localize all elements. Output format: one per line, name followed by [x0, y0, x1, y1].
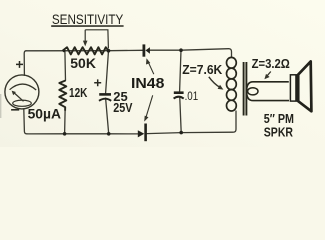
meter scale arc	[10, 84, 37, 90]
junction dot pot right terminal	[107, 49, 111, 53]
diode D2 bottom: triangle pointing right	[138, 130, 145, 137]
wire top rail	[26, 50, 109, 52]
wire bottom rail	[27, 133, 138, 135]
diode D1 top: triangle pointing left	[146, 47, 150, 54]
capacitor C1 top plate	[99, 93, 111, 96]
wire meter bottom to bottom rail	[24, 109, 27, 134]
svg-text:Z=3.2Ω: Z=3.2Ω	[252, 56, 290, 71]
transformer T1 primary coil	[227, 57, 237, 111]
leader arrow from IN48 to bottom diode	[146, 95, 153, 117]
speaker cone	[298, 61, 311, 111]
paper background	[0, 0, 325, 147]
svg-text:12K: 12K	[69, 86, 87, 100]
speaker LS1 driver frame	[290, 75, 298, 101]
capacitor C2 .01 top plate	[174, 91, 184, 94]
svg-text:50µA: 50µA	[28, 106, 62, 121]
wire cap C1 column bottom	[106, 98, 109, 134]
junction dot top rail at .01 branch	[179, 48, 183, 52]
svg-text:IN48: IN48	[131, 76, 164, 92]
wire 12K column top	[64, 51, 67, 81]
junction dot bottom rail .01	[179, 131, 183, 135]
pot wiper arrow	[84, 30, 86, 42]
wire cap C1 column top	[106, 51, 109, 93]
diode D1 top: bar	[143, 44, 146, 56]
meter M1 body	[5, 75, 39, 109]
wire 12K column bottom	[64, 111, 67, 134]
capacitor C1 bottom plate	[99, 99, 111, 101]
underline of SENSITIVITY	[51, 25, 123, 27]
wire bottom rail right of diode	[147, 111, 236, 134]
leader arrow from IN48 to top diode	[148, 62, 154, 74]
diode D1 tail	[143, 49, 146, 51]
meter pivot ellipse	[13, 100, 32, 106]
junction dot bottom rail 12K	[63, 132, 67, 136]
svg-text:25V: 25V	[113, 101, 133, 115]
minus polarity at meter bottom	[11, 109, 19, 111]
diode D2 bottom: bar	[144, 124, 147, 142]
leader arrow Z=7.6K to primary	[209, 77, 221, 88]
capacitor C2 .01 bottom plate	[174, 97, 184, 99]
transformer core bars	[244, 62, 247, 116]
wire .01 column bottom	[180, 98, 181, 132]
transformer secondary single-turn loop	[247, 82, 289, 101]
speaker magnet bar	[295, 75, 298, 101]
potentiometer R1 zigzag	[62, 47, 108, 54]
resistor R2 12K zigzag	[59, 81, 66, 111]
leader arrow Z=3.2 to secondary	[267, 72, 271, 77]
svg-text:SPKR: SPKR	[264, 124, 294, 139]
wire .01 column top	[180, 50, 181, 91]
svg-text:Z=7.6K: Z=7.6K	[182, 62, 223, 77]
svg-text:50K: 50K	[70, 56, 96, 71]
secondary curl	[248, 88, 258, 95]
junction dot bottom rail cap C1	[107, 132, 111, 136]
wiper link to right terminal	[85, 30, 108, 49]
meter needle	[14, 92, 24, 101]
wire left corner down to meter	[24, 51, 26, 76]
plus polarity at meter top	[16, 61, 23, 68]
wire top rail right of pot to diode	[109, 49, 143, 51]
scan smudge left edge	[0, 94, 1, 118]
wire top rail diode to transformer corner	[150, 49, 232, 58]
junction dot 12K top	[63, 49, 66, 52]
capacitor C1 25uF plus sign	[94, 79, 101, 86]
svg-text:.01: .01	[185, 90, 199, 103]
